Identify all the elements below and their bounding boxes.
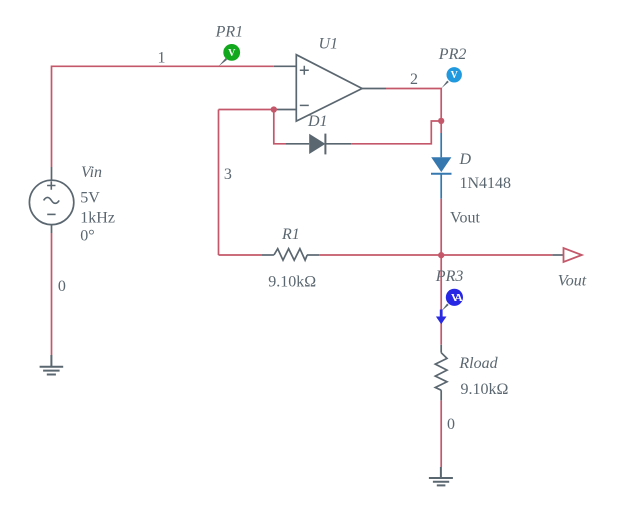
probe PR2 tail	[441, 81, 448, 89]
source plus sign	[47, 181, 55, 189]
svg-text:0: 0	[447, 416, 455, 433]
wire below source to ground	[51, 233, 53, 355]
svg-text:0: 0	[58, 278, 66, 295]
svg-text:V: V	[228, 48, 236, 59]
svg-text:PR1: PR1	[215, 23, 244, 40]
op-amp minus input symbol	[300, 104, 309, 106]
wire node1 top horizontal	[52, 66, 274, 167]
svg-text:Vout: Vout	[450, 209, 480, 226]
probe PR1 circle	[223, 44, 240, 61]
wire minus input horizontal	[219, 109, 276, 111]
resistor Rload lead top	[440, 345, 442, 353]
svg-text:0°: 0°	[80, 227, 94, 244]
op-amp U1 plus lead	[274, 65, 297, 67]
svg-text:3: 3	[224, 166, 232, 183]
svg-text:Vin: Vin	[81, 164, 102, 181]
probe PR3 tail	[441, 304, 448, 312]
svg-text:1N4148: 1N4148	[460, 175, 512, 192]
source Vin lead bottom	[51, 225, 53, 233]
svg-text:D: D	[459, 151, 472, 168]
source sine wave	[44, 197, 60, 203]
wire node3 vertical	[218, 110, 220, 256]
diode D lead bottom blue	[440, 174, 442, 199]
wire bottom horizontal right	[319, 254, 552, 256]
op-amp U1 output lead	[362, 88, 386, 90]
probe PR2 circle	[447, 67, 462, 82]
source Vin lead top	[51, 167, 53, 180]
op-amp plus input symbol	[300, 66, 309, 75]
wire feedback right	[351, 121, 441, 144]
ground left	[40, 355, 64, 375]
ground right	[429, 467, 453, 485]
source minus sign	[47, 213, 55, 215]
junction dot node2	[438, 118, 444, 124]
probe PR3 arrow	[436, 310, 447, 325]
diode D triangle	[431, 157, 451, 172]
resistor Rload lead bottom	[440, 390, 442, 400]
junction dot vout	[438, 252, 444, 258]
svg-text:U1: U1	[319, 36, 339, 53]
wire feedback left vertical	[274, 110, 285, 144]
svg-text:V: V	[451, 70, 459, 81]
resistor R1 lead right	[307, 254, 319, 256]
wire rload to ground	[440, 401, 442, 467]
svg-text:PR3: PR3	[435, 268, 464, 285]
probe PR3 circle	[446, 289, 463, 306]
svg-text:1kHz: 1kHz	[80, 210, 115, 227]
diode D1 triangle	[309, 134, 325, 154]
wire diode to bottom node	[440, 199, 442, 255]
diode D1 lead left	[285, 143, 309, 145]
svg-text:5V: 5V	[80, 189, 100, 206]
svg-text:D1: D1	[307, 113, 328, 130]
op-amp U1 minus lead	[274, 109, 296, 111]
diode D lead top blue	[440, 133, 442, 157]
wire output node2	[386, 89, 441, 134]
diode D bar	[431, 173, 452, 175]
probe PR1 tail	[219, 58, 228, 66]
junction dot minus input	[271, 106, 277, 112]
svg-text:Vout: Vout	[558, 273, 587, 290]
op-amp U1 triangle	[296, 55, 362, 121]
resistor R1 lead left	[262, 254, 274, 256]
wire vout node down	[440, 255, 442, 345]
output connector gray stub	[552, 254, 563, 256]
svg-text:1: 1	[158, 50, 166, 67]
svg-text:Rload: Rload	[458, 355, 498, 372]
svg-text:9.10kΩ: 9.10kΩ	[461, 381, 509, 398]
svg-text:PR2: PR2	[438, 46, 467, 63]
output connector arrow	[564, 248, 582, 262]
svg-text:R1: R1	[281, 226, 300, 243]
diode D1 bar	[324, 134, 326, 155]
svg-text:2: 2	[410, 71, 418, 88]
resistor Rload zigzag	[435, 353, 447, 391]
wire bottom horizontal left	[219, 254, 262, 256]
resistor R1 zigzag	[274, 249, 307, 261]
source Vin circle	[29, 180, 73, 224]
svg-text:9.10kΩ: 9.10kΩ	[268, 273, 316, 290]
diode D1 lead right	[325, 143, 351, 145]
